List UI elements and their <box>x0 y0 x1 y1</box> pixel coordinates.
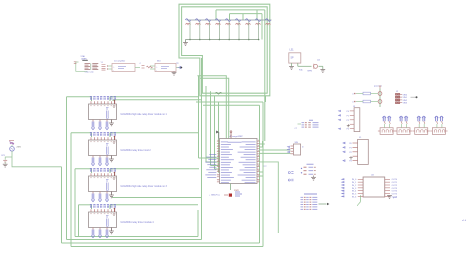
svg-text:ULN2003A high side relay drive: ULN2003A high side relay driver module n… <box>121 113 168 116</box>
svg-text:ATmega328P: ATmega328P <box>230 135 244 138</box>
svg-text:OUT4: OUT4 <box>392 191 398 193</box>
svg-text:filter: filter <box>157 60 161 63</box>
svg-text:1st amplifier: 1st amplifier <box>114 60 126 63</box>
svg-text:Y1: Y1 <box>101 62 103 64</box>
svg-text:BT1: BT1 <box>2 155 5 157</box>
svg-text:P4: P4 <box>347 129 349 131</box>
svg-text:SW: SW <box>295 142 298 144</box>
svg-text:+ GND/Vcc: + GND/Vcc <box>209 195 221 197</box>
svg-text:power in: power in <box>374 85 383 88</box>
svg-text:P1: P1 <box>347 115 349 117</box>
svg-text:in: in <box>352 102 353 104</box>
svg-text:gnd: gnd <box>393 197 396 199</box>
svg-text:OUT2: OUT2 <box>392 185 398 187</box>
svg-text:OUT5: OUT5 <box>392 193 398 195</box>
svg-text:ULN2003A relay driver mod 2: ULN2003A relay driver mod 2 <box>121 149 152 152</box>
svg-text:OUT3: OUT3 <box>392 188 398 190</box>
svg-text:C22p C22p: C22p C22p <box>85 72 94 74</box>
svg-text:LS1: LS1 <box>290 50 295 52</box>
svg-text:in: in <box>352 94 353 96</box>
svg-text:SP: SP <box>291 58 295 60</box>
svg-text:aux: aux <box>264 166 267 168</box>
svg-text:OUT0: OUT0 <box>392 179 398 181</box>
svg-text:ULN2003A relay driver module 4: ULN2003A relay driver module 4 <box>121 221 155 224</box>
svg-text:sig: sig <box>176 63 178 65</box>
svg-text:230V: 230V <box>17 147 22 149</box>
svg-text:P2: P2 <box>347 120 349 122</box>
svg-text:OUT1: OUT1 <box>392 182 398 184</box>
svg-text:C7: C7 <box>295 128 297 130</box>
svg-text:ULN2003A high side relay drive: ULN2003A high side relay driver module n… <box>121 185 168 188</box>
svg-text:P0: P0 <box>347 111 349 113</box>
svg-text:PWR: PWR <box>234 190 239 192</box>
svg-text:NPN: NPN <box>308 71 313 73</box>
